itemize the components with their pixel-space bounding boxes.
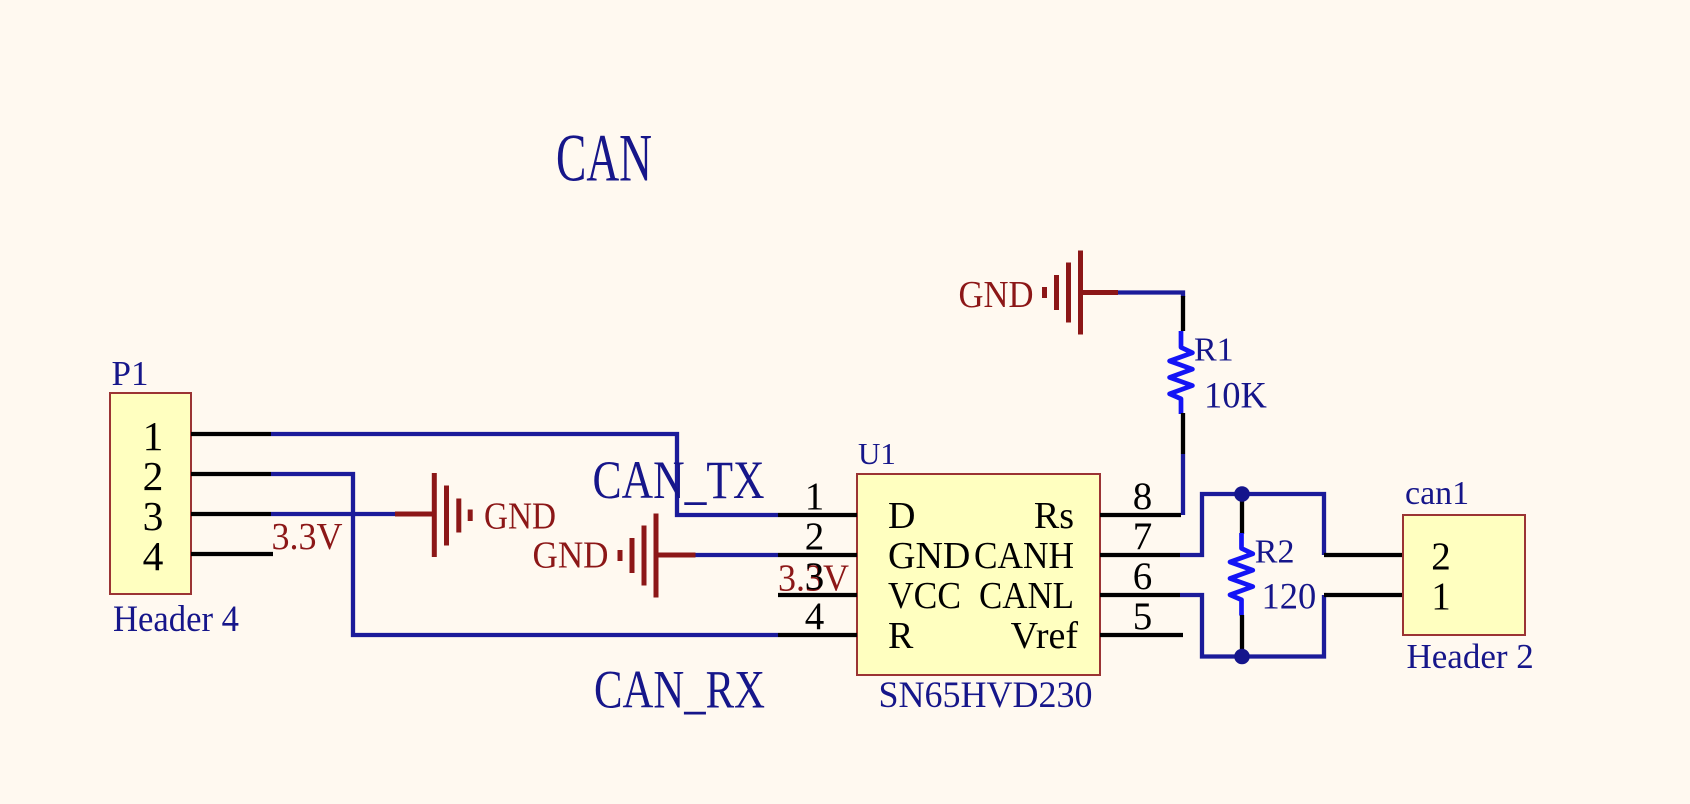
resistor R2 — [1230, 494, 1253, 657]
svg-text:CANL: CANL — [979, 575, 1074, 617]
junction CANL/R2 — [1234, 649, 1250, 665]
connector can1 body — [1403, 515, 1525, 635]
svg-text:GND: GND — [533, 535, 609, 577]
svg-text:P1: P1 — [112, 354, 149, 393]
svg-text:D: D — [888, 495, 915, 537]
IC U1 body — [857, 474, 1100, 675]
svg-text:U1: U1 — [858, 436, 896, 471]
ground symbol near P1 — [395, 473, 556, 557]
svg-text:3: 3 — [805, 555, 825, 598]
P1 pin 4 stub — [191, 552, 273, 556]
svg-text:8: 8 — [1133, 475, 1153, 518]
U1 pin 3 stub — [778, 593, 857, 597]
svg-text:CAN: CAN — [556, 121, 652, 196]
svg-text:R: R — [888, 615, 914, 657]
svg-text:5: 5 — [1133, 595, 1153, 638]
connector P1 body — [110, 393, 191, 594]
svg-text:R1: R1 — [1194, 332, 1234, 369]
U1 pin 6 stub — [1100, 593, 1180, 597]
svg-text:R2: R2 — [1255, 534, 1295, 571]
wire GND symbol to U1.GND — [696, 553, 779, 557]
P1 pin 2 stub — [191, 472, 271, 476]
svg-text:2: 2 — [805, 515, 825, 558]
svg-text:120: 120 — [1262, 576, 1317, 617]
P1 pin 1 stub — [191, 432, 271, 436]
can1 pin 2 stub — [1324, 553, 1403, 557]
U1 pin 5 stub — [1100, 633, 1183, 637]
U1 pin 4 stub — [778, 633, 857, 637]
wire CANH net — [1180, 494, 1324, 555]
svg-text:CANH: CANH — [974, 535, 1074, 577]
U1 pin 7 stub — [1100, 553, 1180, 557]
ground symbol near U1 pin 2 — [533, 514, 696, 598]
wire CAN_TX net: P1.1 to U1.D — [271, 434, 778, 515]
can1 pin 1 stub — [1324, 593, 1403, 597]
U1 pin 8 stub — [1100, 513, 1181, 517]
wire CANL net — [1180, 595, 1324, 657]
wire R1 bottom to U1.Rs — [1181, 454, 1185, 515]
svg-text:1: 1 — [805, 475, 825, 518]
svg-text:GND: GND — [959, 274, 1034, 316]
svg-text:4: 4 — [143, 533, 164, 579]
svg-text:Rs: Rs — [1034, 495, 1074, 537]
svg-text:CAN_RX: CAN_RX — [594, 659, 765, 720]
wire CAN_RX net: P1.2 to U1.R — [271, 474, 778, 635]
svg-text:GND: GND — [888, 535, 970, 577]
wire GND to R1 top — [1118, 293, 1183, 298]
U1 pin 2 stub — [778, 553, 857, 557]
svg-text:can1: can1 — [1405, 475, 1469, 512]
svg-text:1: 1 — [1431, 575, 1451, 618]
svg-text:3.3V: 3.3V — [272, 516, 344, 558]
svg-text:VCC: VCC — [888, 575, 961, 617]
resistor R1 — [1170, 296, 1193, 454]
svg-text:4: 4 — [805, 595, 825, 638]
svg-text:SN65HVD230: SN65HVD230 — [879, 674, 1093, 715]
svg-text:Vref: Vref — [1011, 615, 1079, 657]
svg-text:6: 6 — [1133, 555, 1153, 598]
svg-text:2: 2 — [1431, 535, 1451, 578]
svg-text:CAN_TX: CAN_TX — [593, 449, 765, 510]
U1 pin 1 stub — [778, 513, 857, 517]
svg-text:10K: 10K — [1204, 375, 1267, 416]
junction CANH/R2 — [1234, 486, 1250, 502]
svg-text:Header 2: Header 2 — [1407, 637, 1534, 676]
svg-text:7: 7 — [1133, 515, 1153, 558]
ground symbol top right — [959, 251, 1119, 335]
svg-text:Header 4: Header 4 — [113, 598, 239, 639]
wire P1.3 to GND symbol — [271, 512, 395, 516]
P1 pin 3 stub — [191, 512, 271, 516]
svg-text:GND: GND — [484, 496, 556, 538]
